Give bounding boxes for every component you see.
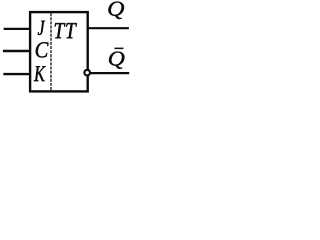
label K (pin) <box>34 66 46 81</box>
wire J input <box>4 28 30 30</box>
inversion bubble on Q-bar output <box>84 70 90 76</box>
wire C input <box>3 50 30 52</box>
label Q-bar letter Q <box>109 52 124 69</box>
label Q (output) <box>108 2 124 19</box>
background <box>0 0 145 105</box>
label TT letter T2 <box>66 23 77 38</box>
wire Q output <box>88 27 129 29</box>
divider line between label column and TT column <box>50 13 52 90</box>
overline of Q-bar <box>115 48 124 50</box>
flip-flop body U1 (rectangle) <box>30 12 88 91</box>
wire K input <box>3 73 29 75</box>
label TT letter T1 <box>55 23 66 38</box>
label C (pin) <box>36 42 49 57</box>
wire Q-bar output <box>91 72 130 74</box>
label J (pin) <box>38 21 45 35</box>
